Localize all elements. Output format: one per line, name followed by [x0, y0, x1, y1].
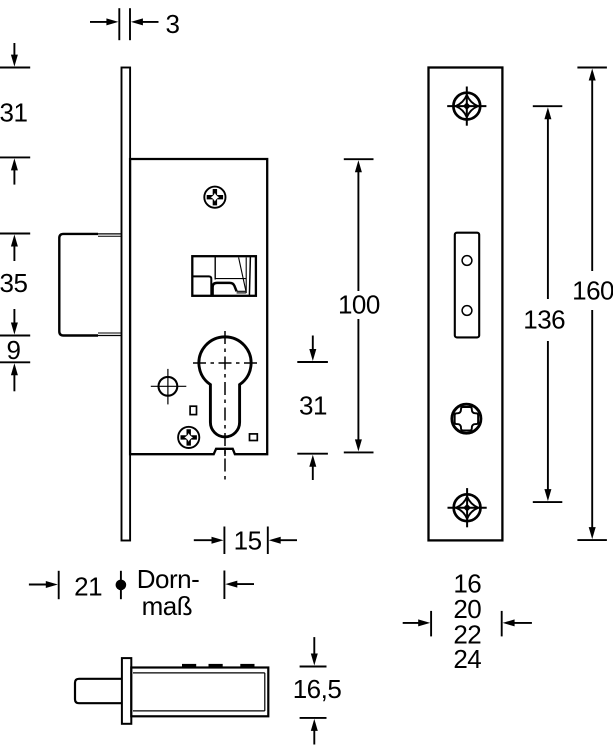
svg-text:Dorn-: Dorn- — [137, 564, 200, 594]
svg-text:21: 21 — [74, 571, 102, 601]
svg-text:24: 24 — [453, 644, 481, 674]
svg-text:31: 31 — [299, 391, 327, 421]
svg-text:35: 35 — [0, 268, 27, 298]
svg-text:160: 160 — [572, 275, 613, 305]
svg-text:136: 136 — [523, 304, 565, 334]
svg-text:31: 31 — [0, 98, 27, 128]
svg-text:3: 3 — [166, 9, 180, 39]
svg-text:maß: maß — [142, 591, 193, 621]
svg-text:15: 15 — [234, 525, 262, 555]
svg-text:9: 9 — [7, 335, 21, 365]
svg-text:16,5: 16,5 — [293, 674, 342, 704]
svg-text:100: 100 — [338, 290, 380, 320]
